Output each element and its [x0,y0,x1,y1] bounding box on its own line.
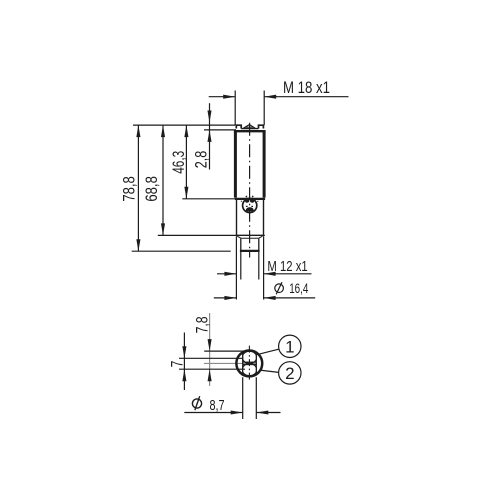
barrel wall left [234,131,237,197]
lens flats and arcs [242,351,257,376]
extension line lens plane 2.8 [204,129,236,131]
svg-text:1: 1 [285,337,294,356]
extension line top face (78.8/68.8/46.3 datum) [133,124,235,126]
arrowhead 2.8 bottom [207,130,211,142]
cap right bump [259,125,264,128]
lens flat left [242,352,244,375]
cap left bump [236,125,241,128]
thread relief dot left [246,196,248,198]
dimension line 68.8 [162,125,164,235]
arrowhead dia8.7 left [231,410,243,414]
housing wall left [236,200,238,236]
extension line dia8.7 right [255,377,257,419]
lens flat right [255,352,257,375]
barrel shoulder bold edge [235,198,265,200]
lens lower arc [242,364,257,376]
extension line M18 right [263,91,265,126]
extension line dia8.7 left [242,377,244,419]
centerline main view [249,123,251,258]
extension line L1 lens top [204,350,244,352]
extension line L2 upper lens centre [179,357,244,359]
diameter symbol 8.7 [192,399,201,408]
svg-text:M 18 x1: M 18 x1 [283,78,330,97]
balloon 1 [279,335,301,357]
arrowhead 2.8 top [207,111,211,123]
M12 wall left [240,238,242,251]
indicator mid dash left [246,206,248,207]
extension line dia16.4 left [235,236,237,299]
housing bottom edge [237,234,264,236]
svg-text:78,8: 78,8 [119,176,138,202]
indicator eye left [245,199,250,203]
extension line M18 left [234,91,236,126]
extension line L4 lower lens centre [179,368,245,370]
cap lens cone inner shade [245,126,253,128]
indicator mid dash right [251,206,253,207]
arrowhead dia16.4 left [224,296,236,300]
extension line 78.8 bottom (connector end) [132,250,231,252]
dimension line dia8.7 [184,412,242,414]
M12 thread top edge [241,237,258,239]
indicator bottom dome [246,207,254,211]
svg-text:2,8: 2,8 [191,151,210,169]
svg-text:8,7: 8,7 [210,397,225,414]
body top bold edge [234,130,266,132]
indicator tick right [257,200,258,203]
arrowhead 78.8 top [136,125,140,137]
arrowhead 7.8 bottom [208,369,212,381]
dimension line 2.8 [209,103,211,169]
svg-text:46,3: 46,3 [169,151,188,174]
arrowhead M18 right [264,95,276,99]
svg-text:2: 2 [285,364,294,383]
arrowhead M12 right [264,272,276,276]
arrowhead dia16.4 right [264,296,276,300]
extension line M12 right [258,252,260,280]
indicator tick left [241,200,242,203]
chamfer left [237,236,241,238]
M12 wall right [258,238,260,251]
dimension line dia16.4 right segment [264,297,316,299]
lens chord lower [243,364,256,366]
M12 bottom bold edge [240,250,260,252]
arrowhead 68.8 bottom [161,223,165,235]
balloon 2 [279,362,301,384]
svg-text:68,8: 68,8 [142,176,161,202]
arrowhead M12 left [224,272,236,276]
extension line 68.8 bottom (housing shoulder) [158,234,265,236]
lens upper arc [242,351,257,363]
housing wall right [263,200,265,236]
cap mid ledge [241,128,258,130]
face outer circle [236,350,262,376]
svg-text:7: 7 [167,361,186,368]
svg-text:7,8: 7,8 [192,316,211,333]
arrowhead dia8.7 right [256,410,268,414]
arrowhead 7.8 top [208,339,212,351]
dimension line M18 left segment [209,96,236,98]
arrowhead 7 top [182,346,186,358]
dimension line M12 left segment [217,273,236,275]
indicator eye right [250,199,255,203]
indicator window circle [243,198,257,212]
svg-text:16,4: 16,4 [289,280,308,296]
leader to balloon 2 [260,370,279,372]
arrowhead 46.3 top [184,125,188,137]
extension line M12 left [240,252,242,280]
thread relief dot right [252,196,254,198]
svg-text:M 12 x1: M 12 x1 [267,259,307,275]
dimension line M18 right segment [264,96,348,98]
dimension line dia16.4 left segment [214,297,237,299]
bottom view horizontal centerline (gray) [204,362,257,364]
dimension line 78.8 [137,125,139,251]
dimension line 7 [183,333,185,391]
arrowhead 78.8 bottom [136,239,140,251]
extension line 46.3 bottom (barrel shoulder) [182,198,235,200]
arrowhead M18 left [223,95,235,99]
diameter symbol 16.4 [275,284,284,293]
arrowhead 7 bottom [182,369,186,381]
lens chord upper [243,361,256,363]
dimension line M12 right segment [264,273,312,275]
dimension line 46.3 [185,125,187,199]
chamfer right [259,236,263,238]
extension line dia16.4 right [263,236,265,299]
arrowhead 68.8 top [161,125,165,137]
cap lens cone [243,125,255,129]
arrowhead 46.3 bottom [184,187,188,199]
dimension line 7.8 (gray shaft) [209,313,211,386]
bottom view vertical centerline [248,346,250,382]
barrel wall right [263,131,266,197]
leader to balloon 1 [257,349,279,355]
